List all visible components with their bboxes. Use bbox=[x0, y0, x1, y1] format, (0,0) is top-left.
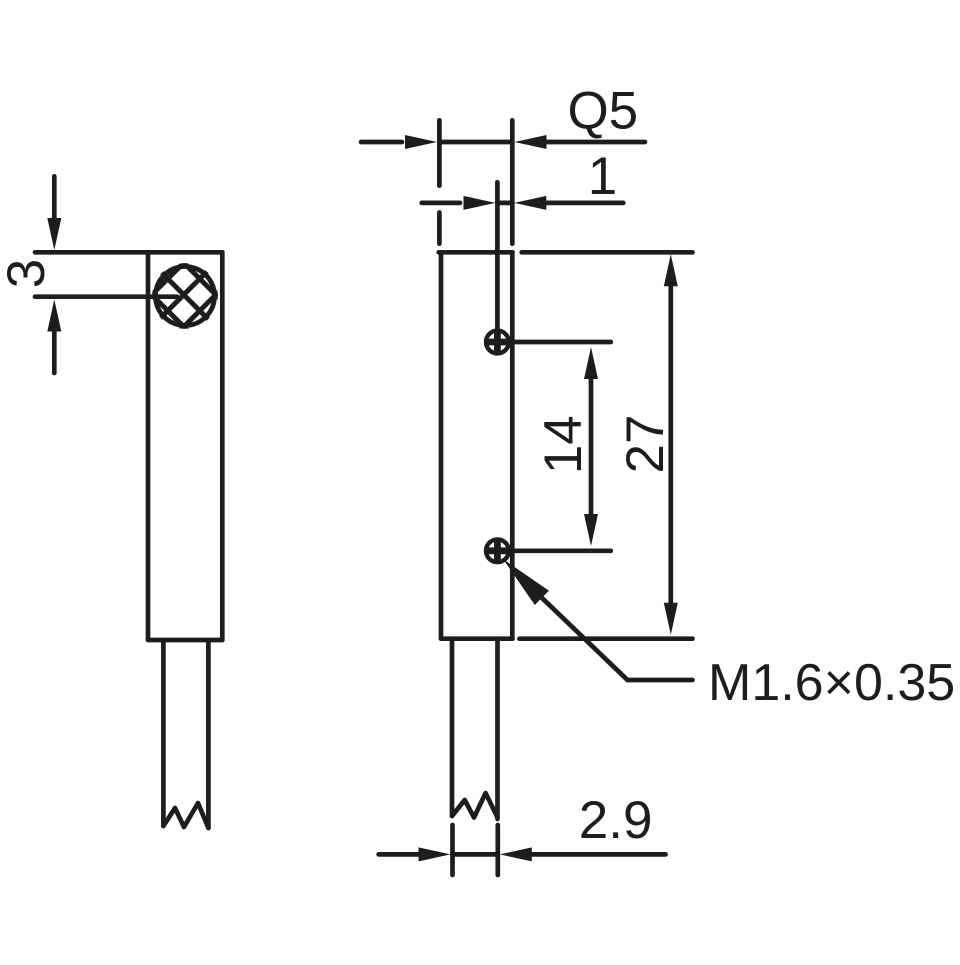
side view: body bottom edge bbox=[148, 638, 222, 643]
upper screw M1.6 head bbox=[486, 331, 509, 354]
dimension 27: shaft bbox=[668, 286, 673, 602]
dimension Q5: right extension tick bbox=[510, 120, 515, 243]
side view: body right edge bbox=[220, 252, 225, 640]
dimension 2.9: middle segment bbox=[453, 852, 498, 857]
dimension Q5: middle segment bbox=[439, 140, 512, 145]
dimension 2.9: left extension tick bbox=[450, 825, 455, 875]
side view: hatched sensing-face circle bbox=[145, 222, 225, 369]
dimension 3: lower leader shaft bbox=[52, 332, 57, 374]
dimension 2.9: left shaft bbox=[379, 852, 419, 857]
side view: extension line to sensing-face axis bbox=[35, 294, 177, 299]
svg-text:2.9: 2.9 bbox=[579, 791, 653, 850]
dimension 1: middle segment bbox=[497, 201, 512, 206]
dimension Q5: left shaft bbox=[361, 140, 402, 145]
leader diagonal segment bbox=[541, 597, 628, 680]
dimension 1: right shaft bbox=[546, 201, 623, 206]
dimension 2.9: right shaft bbox=[532, 852, 666, 857]
front view: body bottom edge bbox=[441, 636, 513, 641]
dimension 14: shaft bbox=[589, 379, 594, 514]
front view: body left edge bbox=[439, 252, 444, 638]
svg-text:3: 3 bbox=[0, 259, 56, 288]
svg-text:Q5: Q5 bbox=[567, 82, 638, 141]
front view: cable break zigzag bbox=[452, 793, 498, 818]
dimension Q5: left arrowhead bbox=[405, 135, 437, 149]
dimension 3: upper arrowhead bbox=[47, 218, 61, 250]
dimension 14: lower arrowhead bbox=[584, 514, 598, 546]
svg-text:14: 14 bbox=[534, 415, 593, 474]
dimension 2.9: right extension tick bbox=[495, 825, 500, 875]
svg-text:1: 1 bbox=[588, 147, 617, 206]
side view: body left edge bbox=[146, 252, 151, 640]
dimension 14: upper extension line bbox=[497, 340, 610, 345]
dimension 14: lower extension line bbox=[497, 548, 610, 553]
svg-text:M1.6×0.35: M1.6×0.35 bbox=[708, 654, 955, 712]
side view: cable left edge bbox=[161, 640, 166, 826]
dimension Q5: left extension tick bbox=[437, 120, 442, 185]
front view: body top edge bbox=[439, 250, 513, 255]
leader arrowhead at lower screw bbox=[503, 559, 549, 605]
dimension Q5: right shaft bbox=[547, 140, 646, 145]
dimension 3: upper leader shaft bbox=[52, 176, 57, 219]
side view: body top edge with extension line to left bbox=[35, 250, 222, 255]
dimension 2.9: left arrowhead bbox=[419, 847, 451, 861]
front view: cable left edge bbox=[450, 639, 455, 816]
dimension Q5: dashed extension segment bbox=[437, 213, 442, 244]
screw-axis centerline bbox=[495, 182, 500, 328]
lower screw M1.6 head bbox=[486, 539, 509, 562]
dimension 3: lower arrowhead bbox=[47, 300, 61, 332]
dimension 27: upper extension line bbox=[522, 250, 693, 255]
dimension 27: lower arrowhead bbox=[664, 603, 678, 635]
front view: body right edge bbox=[510, 252, 515, 638]
side view: cable break zigzag bbox=[163, 803, 208, 828]
dimension 1: right arrowhead bbox=[514, 196, 546, 210]
dimension 14: upper arrowhead bbox=[584, 347, 598, 379]
svg-text:27: 27 bbox=[616, 415, 675, 474]
dimension 2.9: right arrowhead bbox=[500, 847, 532, 861]
dimension 1: left shaft bbox=[422, 201, 460, 206]
dimension 27: lower extension line bbox=[519, 636, 692, 641]
dimension 1: left arrowhead bbox=[464, 196, 496, 210]
side view: cable right edge bbox=[206, 640, 211, 828]
leader horizontal segment bbox=[628, 678, 693, 683]
dimension Q5: right arrowhead bbox=[515, 135, 547, 149]
front view: cable right edge bbox=[495, 639, 500, 819]
dimension 27: upper arrowhead bbox=[664, 254, 678, 286]
